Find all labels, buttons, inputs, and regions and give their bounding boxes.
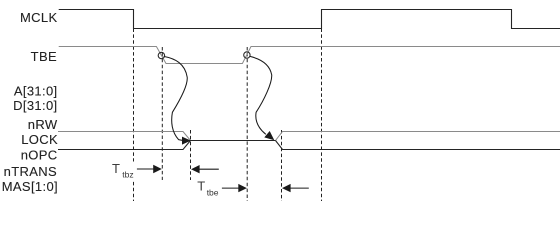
arrowhead at bus driven point [264,131,274,140]
svg-text:LOCK: LOCK [21,132,58,147]
wire TBE waveform [59,47,560,64]
node circle marker on TBE falling edge [158,52,164,58]
svg-text:T: T [112,161,120,176]
guide dashed line at TBE falling edge x=162.3 [161,47,163,180]
wire bus driven top rail (left segment) [58,132,191,141]
wire bus high-impedance mid line [191,140,276,142]
arrow Ttbz left-pointing [199,168,219,170]
wire bus driven bottom rail (right segment) [276,141,560,150]
guide dashed line at bus high-Z point x=190.5 [190,130,192,180]
arrow Ttbe left-pointing [290,187,309,189]
guide dashed line at TBE rising edge x=247.2 [246,47,248,201]
arrow Ttbe right-pointing [222,187,239,189]
node circle marker on TBE rising edge [244,52,250,58]
svg-text:nOPC: nOPC [21,147,58,162]
svg-text:D[31:0]: D[31:0] [13,98,57,113]
svg-text:MAS[1:0]: MAS[1:0] [2,179,58,194]
arrow Ttbz right-pointing [137,168,154,170]
svg-text:tbe: tbe [207,188,219,198]
wire bus driven bottom rail (left segment) [58,141,191,150]
svg-text:TBE: TBE [31,49,57,64]
svg-text:T: T [197,179,205,194]
svg-text:A[31:0]: A[31:0] [14,83,58,98]
guide dashed line at bus driven point x=281.5 [281,130,283,201]
label Ttbz background knockout [110,162,137,182]
arrowhead at bus high-Z point [182,137,191,145]
svg-text:nTRANS: nTRANS [4,164,57,179]
wire causality curve from TBE rise to bus driven [250,56,272,134]
wire MCLK waveform [59,10,560,29]
guide dashed line at MCLK rising edge x=322 [321,29,323,202]
guide dashed line at MCLK falling edge x=133.5 [133,29,135,202]
wire bus driven top rail (right segment) [276,132,560,141]
wire causality curve from TBE fall to bus high-Z [164,56,188,140]
svg-text:MCLK: MCLK [20,10,58,25]
svg-text:tbz: tbz [122,170,133,180]
svg-text:nRW: nRW [28,117,58,132]
